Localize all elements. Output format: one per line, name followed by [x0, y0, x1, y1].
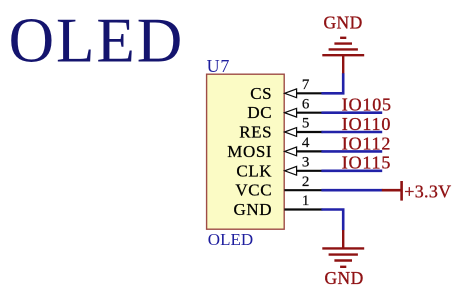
svg-text:6: 6	[302, 96, 310, 112]
pin 4 arrow	[285, 147, 297, 156]
wire net IO110 (blue)	[321, 131, 382, 134]
svg-text:GND: GND	[234, 200, 273, 219]
svg-text:RES: RES	[239, 123, 272, 142]
svg-text:7: 7	[302, 77, 310, 93]
pin 4 wire (black)	[296, 150, 322, 152]
svg-text:+3.3V: +3.3V	[404, 182, 451, 202]
wire pin2 to +3.3V (blue)	[321, 189, 382, 192]
svg-text:IO112: IO112	[342, 133, 391, 153]
svg-text:MOSI: MOSI	[227, 142, 272, 161]
wire net IO112 (blue)	[321, 150, 382, 153]
svg-text:DC: DC	[247, 103, 272, 122]
svg-text:IO115: IO115	[342, 153, 391, 173]
svg-text:IO105: IO105	[342, 95, 392, 115]
bottom GND symbol	[322, 230, 364, 267]
svg-text:GND: GND	[325, 268, 364, 288]
svg-text:3: 3	[302, 155, 310, 171]
pin 3 arrow	[285, 166, 297, 175]
wire pin1 to bottom GND (blue)	[321, 210, 343, 231]
svg-text:OLED: OLED	[9, 5, 185, 75]
pin 5 arrow	[285, 128, 297, 137]
svg-text:U7: U7	[207, 56, 231, 76]
pin 7 arrow	[285, 89, 297, 98]
svg-text:OLED: OLED	[208, 230, 253, 249]
svg-text:CS: CS	[250, 84, 272, 103]
component body U7	[207, 74, 285, 229]
svg-text:VCC: VCC	[235, 181, 272, 200]
pin 1 wire (black)	[284, 208, 322, 210]
power port +3.3V bar	[382, 181, 402, 201]
svg-text:5: 5	[302, 116, 310, 132]
svg-text:1: 1	[302, 193, 310, 209]
pin 7 wire (black)	[296, 92, 322, 94]
svg-text:IO110: IO110	[342, 114, 391, 134]
pin 6 wire (black)	[296, 112, 322, 114]
svg-text:4: 4	[302, 135, 310, 151]
pin 3 wire (black)	[296, 170, 322, 172]
pin 2 wire (black)	[284, 189, 322, 191]
top GND symbol	[322, 38, 364, 74]
svg-text:2: 2	[302, 174, 310, 190]
svg-text:GND: GND	[324, 13, 363, 33]
wire pin7 to top GND (blue)	[321, 73, 343, 93]
pin 6 arrow	[285, 108, 297, 117]
pin 5 wire (black)	[296, 131, 322, 133]
wire net IO105 (blue)	[321, 111, 382, 114]
wire net IO115 (blue)	[321, 170, 382, 173]
svg-text:CLK: CLK	[236, 161, 272, 180]
